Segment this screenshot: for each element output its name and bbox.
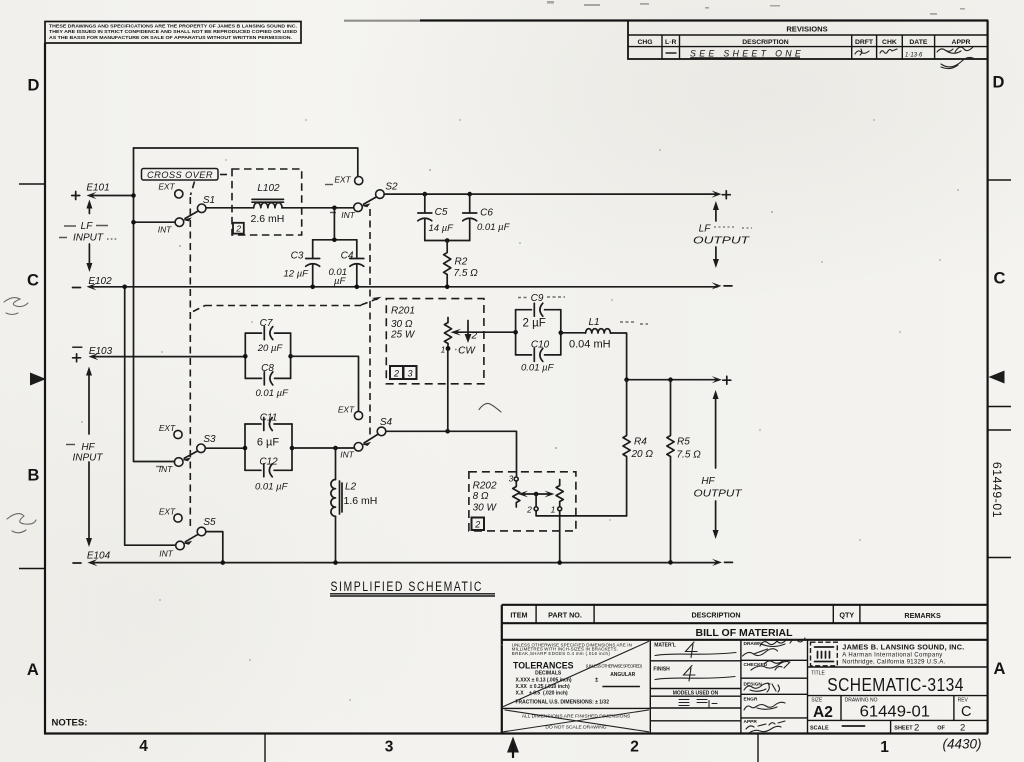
capacitor C5 xyxy=(418,192,454,241)
svg-text:JAMES B. LANSING SOUND, INC.: JAMES B. LANSING SOUND, INC. xyxy=(842,642,964,651)
svg-text:E104: E104 xyxy=(87,551,111,562)
svg-text:EXT: EXT xyxy=(158,182,175,192)
wire drop to C3/C4 xyxy=(333,208,335,240)
svg-text:C11: C11 xyxy=(260,413,278,424)
crossover label xyxy=(142,169,232,196)
middle column material/finish xyxy=(650,640,741,734)
svg-text:25 W: 25 W xyxy=(390,330,416,341)
svg-text:2: 2 xyxy=(914,722,919,733)
svg-text:ANGULAR: ANGULAR xyxy=(610,672,635,678)
inductor L102 with dashed box xyxy=(232,169,302,235)
junctions C9/C10 nodes xyxy=(513,330,518,335)
resistor R2 xyxy=(444,241,479,287)
svg-text:DESCRIPTION: DESCRIPTION xyxy=(691,611,740,620)
wire S1 to L102 to S2 INT xyxy=(206,207,354,209)
svg-text:SHEET: SHEET xyxy=(894,726,913,732)
R201 pot element xyxy=(441,318,452,355)
terminal E104 (HF input -) xyxy=(73,551,111,564)
junction L102 out xyxy=(332,206,337,211)
R201 pin1 lead down xyxy=(447,350,449,431)
svg-text:Northridge, California 91329 U: Northridge, California 91329 U.S.A. xyxy=(842,659,945,665)
capacitor C6 xyxy=(463,192,511,241)
svg-text:R5: R5 xyxy=(677,437,690,448)
svg-text:6 µF: 6 µF xyxy=(257,437,280,449)
svg-text:D: D xyxy=(28,77,40,95)
capacitor C7 / C8 parallel box xyxy=(245,318,290,399)
wire E104 / HF minus bus xyxy=(88,559,723,566)
terminal E101 (LF input +) xyxy=(72,183,134,200)
svg-text:C7: C7 xyxy=(260,318,273,329)
inductor L1 xyxy=(561,317,648,351)
svg-text:C12: C12 xyxy=(259,457,278,468)
company block with JBL logo xyxy=(808,642,988,667)
junction pin1/HF minus xyxy=(557,560,562,565)
svg-text:D: D xyxy=(993,74,1005,92)
label HF OUTPUT xyxy=(694,376,743,562)
svg-text:S5: S5 xyxy=(203,517,216,528)
note marker 2,3 (R201) xyxy=(390,366,417,379)
potentiometer R201 dashed box xyxy=(386,299,484,384)
crossover dashed boundary right xyxy=(369,209,371,436)
switch S2 xyxy=(325,175,398,221)
svg-text:2 µF: 2 µF xyxy=(523,318,546,330)
resistor R5 xyxy=(667,380,701,563)
svg-text:3: 3 xyxy=(385,739,394,756)
svg-text:INT: INT xyxy=(159,549,173,559)
wire: E101 node vertical down to S3 INT xyxy=(134,148,176,462)
svg-text:MATER'L: MATER'L xyxy=(654,643,676,649)
switch S3 xyxy=(156,423,216,474)
svg-text:A Harman International Company: A Harman International Company xyxy=(842,653,942,659)
switch S4 xyxy=(338,405,393,460)
label LF INPUT xyxy=(59,221,118,244)
svg-text:2: 2 xyxy=(235,224,241,234)
HF input measure arrow xyxy=(86,367,92,548)
svg-text:PART NO.: PART NO. xyxy=(548,611,582,620)
svg-text:(4430): (4430) xyxy=(942,737,981,752)
svg-text:FINISH: FINISH xyxy=(653,667,670,673)
junctions R4/R5 top xyxy=(624,377,629,382)
scan speckles xyxy=(81,1,965,701)
switch S5 xyxy=(159,507,216,559)
svg-text:REMARKS: REMARKS xyxy=(904,611,941,620)
svg-text:14 µF: 14 µF xyxy=(429,223,455,234)
label LF OUTPUT xyxy=(693,191,752,286)
svg-text:FRACTIONAL U.S. DIMENSIONS: ±: FRACTIONAL U.S. DIMENSIONS: ± 1/32 xyxy=(516,700,610,706)
wire R202 pin1 to HF minus xyxy=(559,511,561,563)
LF output measure arrow xyxy=(713,201,719,268)
svg-text:SCHEMATIC-3134: SCHEMATIC-3134 xyxy=(827,675,964,695)
svg-text:R202: R202 xyxy=(473,481,497,492)
junction E101/vertical xyxy=(131,193,136,198)
svg-text:A2: A2 xyxy=(813,704,833,721)
svg-text:ENGR: ENGR xyxy=(744,697,758,703)
tolerance block xyxy=(502,640,651,734)
label HF INPUT xyxy=(66,442,103,463)
svg-text:EXT: EXT xyxy=(338,405,355,415)
svg-text:L1: L1 xyxy=(588,317,599,328)
svg-text:C6: C6 xyxy=(480,207,493,218)
R201 wiper wire to C9/C10 xyxy=(451,329,516,336)
junction R5/HF minus xyxy=(668,560,673,565)
wire: top loop to S2 EXT xyxy=(134,148,358,176)
svg-text:C10: C10 xyxy=(531,340,550,351)
svg-text:THESE DRAWINGS AND SPECIFICATI: THESE DRAWINGS AND SPECIFICATIONS ARE TH… xyxy=(49,24,297,29)
R202 left element with pin 3 xyxy=(509,474,520,508)
svg-text:BREAK,SHARP EDGES 0.4 mm (.016: BREAK,SHARP EDGES 0.4 mm (.016 inch) xyxy=(512,651,611,656)
svg-text:1: 1 xyxy=(551,505,556,515)
svg-text:µF: µF xyxy=(334,276,346,287)
junction R2 top xyxy=(445,238,450,243)
svg-text:C: C xyxy=(994,270,1006,288)
svg-text:C8: C8 xyxy=(261,363,274,374)
svg-text:R201: R201 xyxy=(391,306,415,317)
svg-text:INPUT: INPUT xyxy=(73,452,104,463)
svg-text:REV: REV xyxy=(958,698,969,704)
svg-text:LF: LF xyxy=(81,221,94,232)
svg-text:INT: INT xyxy=(159,464,173,474)
capacitor C4 xyxy=(329,240,364,287)
terminal E102 (LF input -) xyxy=(73,276,113,288)
signature column xyxy=(741,638,808,734)
junctions C7/C8 nodes xyxy=(243,354,248,359)
svg-text:4: 4 xyxy=(139,738,148,755)
svg-text:INT: INT xyxy=(341,210,355,220)
svg-text:L·R: L·R xyxy=(665,39,676,46)
wire: E102 down to S5 INT xyxy=(125,287,176,545)
LF input measure arrow xyxy=(86,200,92,273)
svg-text:S2: S2 xyxy=(385,182,398,193)
svg-text:INT: INT xyxy=(340,450,354,460)
svg-text:INPUT: INPUT xyxy=(73,233,104,244)
R202 right element with pin 1 xyxy=(551,480,564,515)
junctions C3/C4 on E102 xyxy=(310,285,315,290)
svg-text:2: 2 xyxy=(630,739,639,756)
svg-text:S3: S3 xyxy=(203,434,216,445)
wire S4 output to R202 pin3 xyxy=(386,431,517,477)
svg-text:TOLERANCES: TOLERANCES xyxy=(513,660,574,670)
svg-text:2: 2 xyxy=(960,722,965,733)
crossover dashed boundary left xyxy=(189,197,191,527)
svg-text:R2: R2 xyxy=(455,257,468,268)
capacitor C9 / C10 parallel box xyxy=(516,293,565,374)
svg-text:R4: R4 xyxy=(634,437,647,448)
svg-text:2: 2 xyxy=(474,519,480,529)
svg-text:DRFT: DRFT xyxy=(855,39,874,46)
svg-text:C5: C5 xyxy=(435,207,448,218)
wire L1 to HF plus xyxy=(610,333,626,380)
size / drawing no / rev xyxy=(808,696,988,721)
pencil check mark xyxy=(479,403,501,412)
junction R2/E102 xyxy=(445,285,450,290)
svg-text:DATE: DATE xyxy=(909,39,927,46)
wire C11/C12 to S4 INT with L2 tap xyxy=(292,447,354,449)
svg-text:LF: LF xyxy=(699,224,712,235)
svg-text:TITLE: TITLE xyxy=(811,671,825,677)
resistor R4 xyxy=(623,380,653,516)
svg-text:INT: INT xyxy=(158,225,172,235)
svg-text:20 Ω: 20 Ω xyxy=(631,449,654,460)
note marker 2 (R202) xyxy=(472,518,485,531)
svg-text:OUTPUT: OUTPUT xyxy=(694,489,743,500)
svg-text:DRAWN: DRAWN xyxy=(744,641,763,647)
svg-text:E101: E101 xyxy=(86,183,109,194)
disclaimer box xyxy=(45,22,301,44)
svg-text:1: 1 xyxy=(880,739,889,756)
title SIMPLIFIED SCHEMATIC xyxy=(330,579,495,596)
capacitor C3 xyxy=(284,240,320,287)
scale / sheet row xyxy=(810,720,965,733)
svg-text:SIMPLIFIED SCHEMATIC: SIMPLIFIED SCHEMATIC xyxy=(331,579,484,594)
R202 wiper bar xyxy=(518,491,555,515)
svg-text:MODELS USED ON: MODELS USED ON xyxy=(673,690,719,696)
svg-text:L102: L102 xyxy=(257,183,280,194)
svg-text:0.01 µF: 0.01 µF xyxy=(255,482,289,493)
svg-text:DECIMALS: DECIMALS xyxy=(535,671,562,677)
svg-text:BILL OF MATERIAL: BILL OF MATERIAL xyxy=(695,627,793,639)
wire C7/C8 out to S4 EXT xyxy=(291,356,359,411)
svg-text:NOTES:: NOTES: xyxy=(52,718,88,729)
wire HF plus bus xyxy=(627,376,722,383)
svg-text:CW: CW xyxy=(458,346,476,357)
svg-text:C: C xyxy=(27,272,39,290)
svg-text:THEY ARE ISSUED IN STRICT CONF: THEY ARE ISSUED IN STRICT CONFIDENCE AND… xyxy=(49,29,298,34)
junction L2 top xyxy=(333,446,338,451)
svg-text:2: 2 xyxy=(471,331,478,342)
inductor L2 xyxy=(331,448,377,563)
crossover dashed boundary middle xyxy=(193,297,382,312)
svg-text:L2: L2 xyxy=(345,482,357,493)
svg-text:A: A xyxy=(27,661,39,679)
svg-text:2: 2 xyxy=(393,369,399,379)
wire C3/C4 top rail xyxy=(313,239,357,241)
svg-text:C4: C4 xyxy=(341,251,354,262)
svg-text:DESCRIPTION: DESCRIPTION xyxy=(742,39,789,46)
svg-text:OF: OF xyxy=(937,726,945,732)
svg-text:C: C xyxy=(961,704,971,720)
HF output measure arrow xyxy=(713,390,719,539)
svg-text:ALL DIMENSIONS ARE FINISHED DI: ALL DIMENSIONS ARE FINISHED DIMENSIONS xyxy=(522,714,631,720)
svg-text:EXT: EXT xyxy=(159,507,176,517)
svg-text:0.01 µF: 0.01 µF xyxy=(521,363,555,374)
margin pencil scribbles xyxy=(4,298,36,533)
notes heading xyxy=(52,718,88,729)
svg-text:0.01 µF: 0.01 µF xyxy=(256,388,290,399)
revisions table xyxy=(628,21,988,69)
wire S3 to C11/C12 xyxy=(205,447,245,449)
svg-text:1·13·6: 1·13·6 xyxy=(905,53,923,59)
svg-text:OUTPUT: OUTPUT xyxy=(693,236,750,247)
capacitor C11 / C12 parallel box xyxy=(245,413,292,493)
junction E102/S5 vertical xyxy=(122,285,127,290)
svg-text:REVISIONS: REVISIONS xyxy=(786,24,827,33)
svg-text:20 µF: 20 µF xyxy=(257,343,284,354)
svg-text:7.5 Ω: 7.5 Ω xyxy=(677,450,702,461)
svg-text:CROSS OVER: CROSS OVER xyxy=(147,170,213,180)
svg-text:2.6 mH: 2.6 mH xyxy=(251,213,285,225)
svg-text:±: ± xyxy=(595,678,599,684)
svg-text:2: 2 xyxy=(526,505,532,515)
svg-text:61449-01: 61449-01 xyxy=(860,704,931,721)
svg-text:3: 3 xyxy=(407,369,412,379)
R201 CW arrow and labels xyxy=(455,321,478,357)
svg-text:C3: C3 xyxy=(291,251,304,262)
switch S1 xyxy=(158,182,215,235)
bill of material table xyxy=(502,605,988,734)
svg-text:CHK: CHK xyxy=(882,39,897,46)
svg-text:SCALE: SCALE xyxy=(810,726,829,732)
svg-text:61449-01: 61449-01 xyxy=(990,462,1004,518)
wire E102 / LF minus bus xyxy=(87,282,722,290)
svg-text:SEE SHEET ONE: SEE SHEET ONE xyxy=(690,48,802,58)
wire: S1 INT stub xyxy=(134,221,176,223)
svg-text:EXT: EXT xyxy=(334,175,351,185)
junction S5/E104 xyxy=(221,560,226,565)
wire S2 output / LF plus bus xyxy=(384,191,721,198)
terminal E103 (HF input +) xyxy=(72,346,245,362)
svg-text:0.01 µF: 0.01 µF xyxy=(477,222,511,233)
wire C5/C6 bottom rail xyxy=(425,240,470,242)
svg-text:30 W: 30 W xyxy=(473,503,498,514)
svg-text:1.6 mH: 1.6 mH xyxy=(344,495,378,507)
svg-text:AS THE BASIS FOR MANUFACTURE O: AS THE BASIS FOR MANUFACTURE OR SALE OF … xyxy=(49,35,292,40)
svg-text:HF: HF xyxy=(701,476,715,487)
svg-text:SIZE: SIZE xyxy=(811,698,823,704)
svg-text:APPR: APPR xyxy=(952,39,971,46)
svg-text:EXT: EXT xyxy=(159,423,176,433)
junction L2/E104 xyxy=(333,560,338,565)
wire R202 pin2 to R4 bottom xyxy=(536,511,627,516)
svg-text:0.04 mH: 0.04 mH xyxy=(569,339,611,351)
svg-text:8 Ω: 8 Ω xyxy=(473,491,489,502)
svg-text:APPR: APPR xyxy=(744,719,758,725)
junction S1 INT/vertical xyxy=(131,220,136,225)
svg-text:1: 1 xyxy=(441,345,446,355)
junction R201 lead / S4 wire xyxy=(445,429,450,434)
svg-text:3: 3 xyxy=(509,474,514,484)
junction C3/C4 top center xyxy=(332,238,337,243)
svg-text:CHG: CHG xyxy=(637,39,652,46)
svg-text:A: A xyxy=(994,660,1006,678)
title SCHEMATIC-3134 xyxy=(808,671,988,696)
svg-text:X.XXX ± 0.13 (.005 inch): X.XXX ± 0.13 (.005 inch) xyxy=(516,678,572,684)
svg-text:B: B xyxy=(28,467,40,485)
svg-text:QTY: QTY xyxy=(839,611,854,620)
wire S5 to E104 xyxy=(206,532,223,563)
svg-text:X.X ± 0.5 (.020 inch): X.X ± 0.5 (.020 inch) xyxy=(516,691,569,697)
svg-text:DO NOT SCALE DRAWING: DO NOT SCALE DRAWING xyxy=(545,725,606,731)
svg-text:7.5 Ω: 7.5 Ω xyxy=(454,268,479,279)
svg-text:ITEM: ITEM xyxy=(510,611,527,620)
svg-text:30 Ω: 30 Ω xyxy=(391,319,413,330)
junctions C11/C12 nodes xyxy=(243,446,248,451)
note marker 2 (L102) xyxy=(233,223,244,234)
potentiometer R202 dashed box xyxy=(469,472,576,531)
svg-text:C9: C9 xyxy=(531,293,544,304)
svg-text:12 µF: 12 µF xyxy=(284,269,310,280)
